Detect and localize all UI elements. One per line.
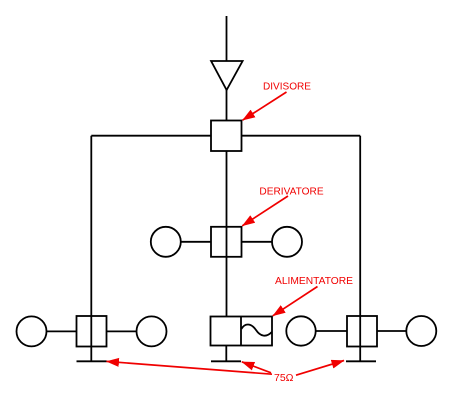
derivatore left outlet circle [151, 227, 181, 257]
svg-text:75Ω: 75Ω [274, 372, 294, 384]
annotation arrow 75ohm to left terminator [107, 361, 273, 374]
wire left trunk [90, 136, 92, 362]
annotation arrow to alimentatore [273, 287, 318, 316]
wire center trunk [226, 151, 228, 317]
wire left circle to derivatore [181, 241, 211, 243]
75 ohm terminator left [77, 360, 107, 362]
antenna symbol [211, 61, 243, 90]
alimentatore divider [240, 317, 242, 346]
wire circle A to left tap box [47, 330, 77, 332]
svg-text:DIVISORE: DIVISORE [263, 81, 311, 93]
wire antenna to divisore [226, 90, 228, 121]
annotation arrow 75ohm to center terminator [242, 362, 271, 373]
wire alimentatore to terminator [225, 346, 227, 362]
annotation arrow 75ohm to right terminator [296, 361, 344, 376]
svg-text:ALIMENTATORE: ALIMENTATORE [275, 275, 353, 287]
alimentatore AC wave symbol [241, 324, 271, 335]
annotation arrow to derivatore [242, 196, 288, 226]
bottom-left outlet circle B [137, 316, 167, 346]
wire derivatore to right circle [242, 241, 273, 243]
bottom-right outlet circle D [406, 316, 436, 346]
bottom-left outlet circle A [17, 316, 47, 346]
left tap box U3 [77, 316, 107, 347]
wire left tap box to circle B [107, 330, 137, 332]
outlet circle C [286, 316, 315, 345]
75 ohm terminator center [211, 360, 241, 362]
derivatore U2 [211, 227, 242, 257]
wire right trunk [359, 136, 361, 362]
divisore U1 [211, 121, 242, 152]
wire circle C to right tap box [316, 330, 347, 332]
wire divisore to left branch [91, 135, 211, 137]
svg-text:DERIVATORE: DERIVATORE [259, 186, 323, 198]
antenna feed wire [226, 16, 228, 62]
wire right tap box to circle D [377, 330, 406, 332]
alimentatore U4 [211, 317, 273, 346]
derivatore right outlet circle [272, 227, 302, 257]
75 ohm terminator right [346, 360, 376, 362]
annotation arrow to divisore [243, 92, 287, 120]
wire divisore to right branch [242, 135, 361, 137]
right tap box U5 [347, 316, 377, 347]
